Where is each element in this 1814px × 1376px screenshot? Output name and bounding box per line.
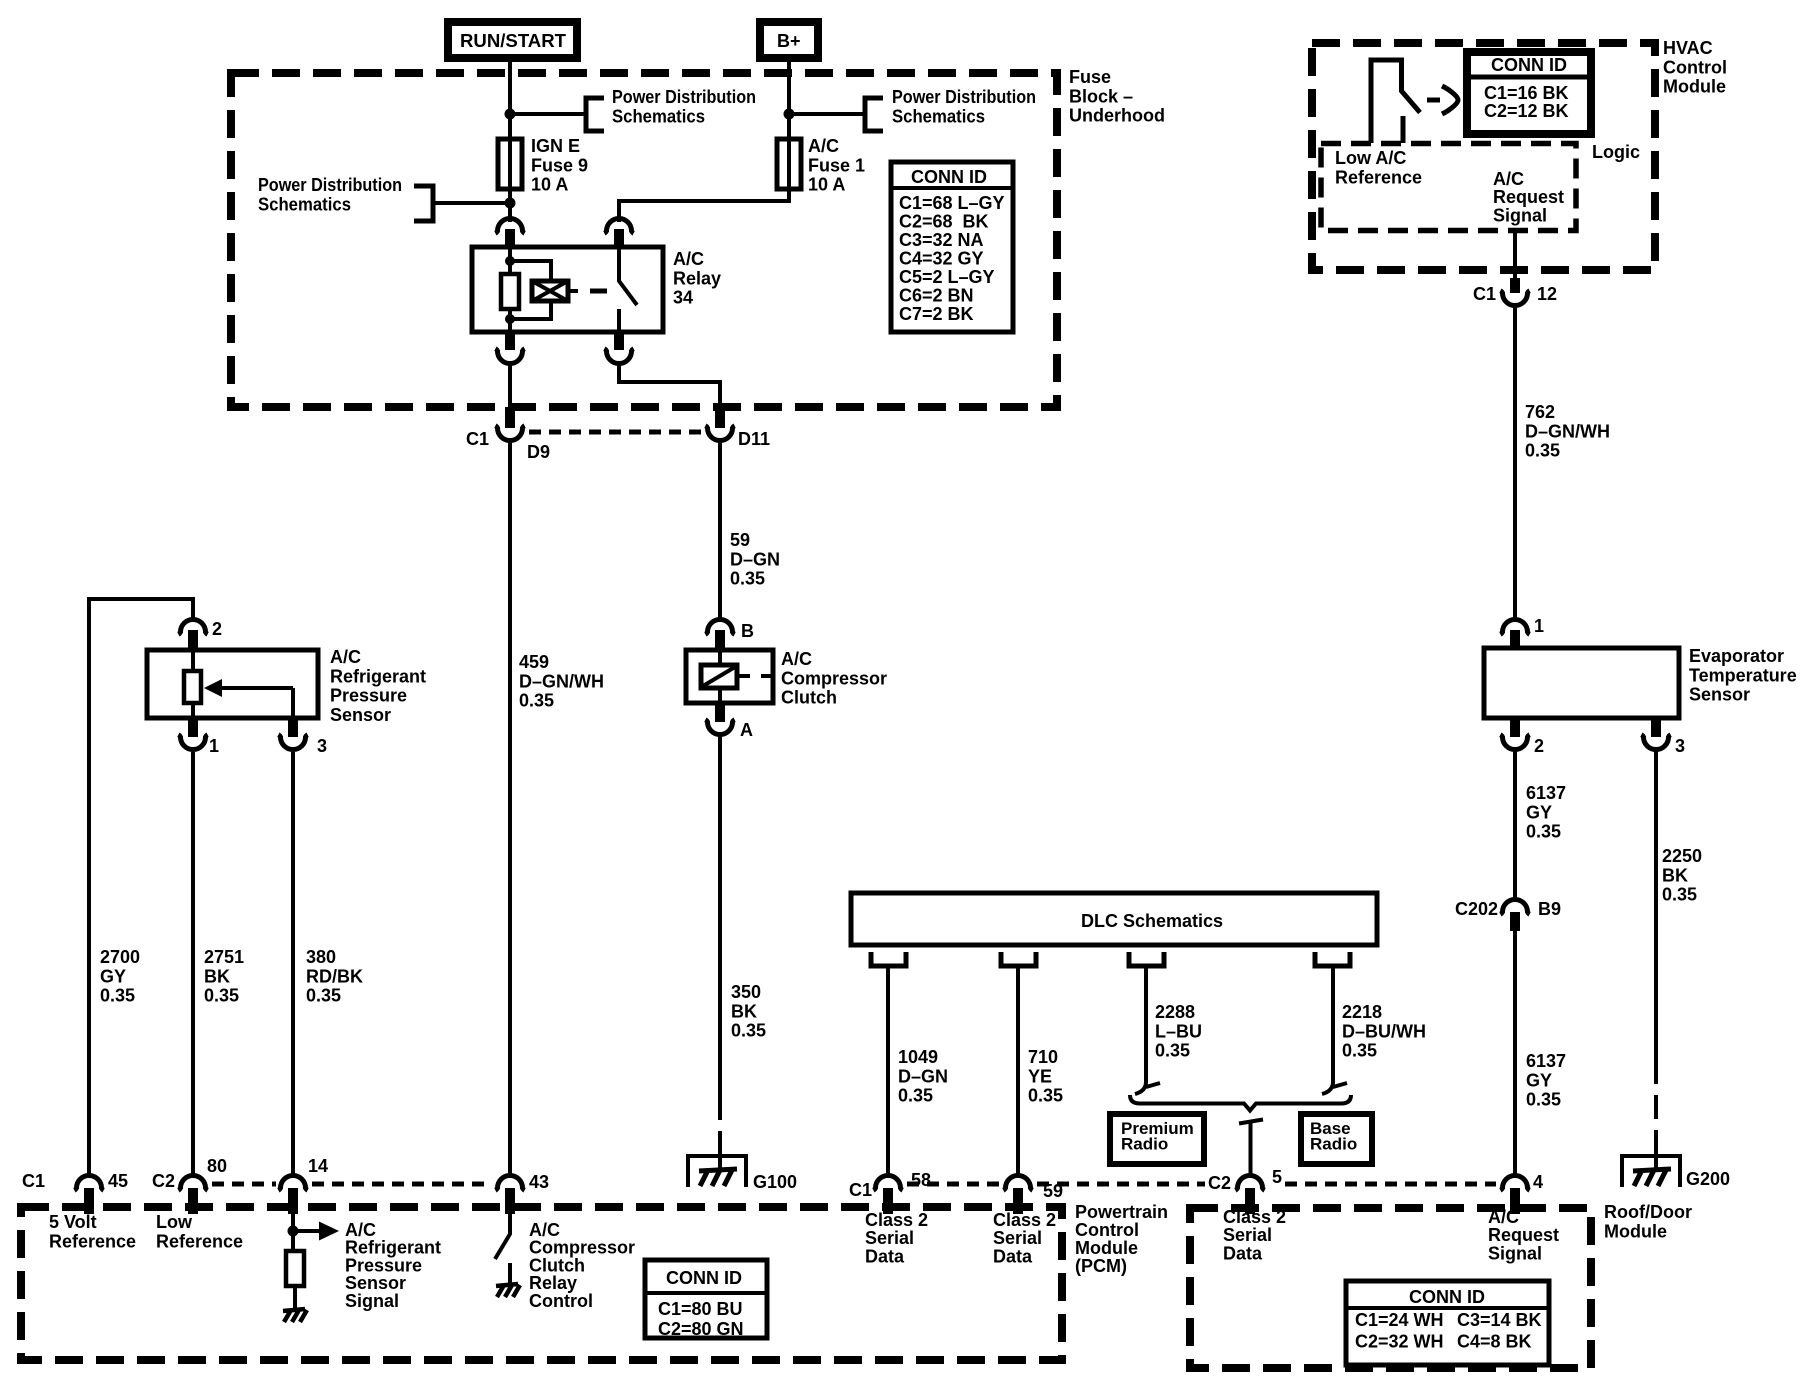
wire: branch to Power Distribution bracket (left): [433, 201, 510, 205]
dashed box: HVAC control module (lower): [1190, 1208, 1591, 1368]
svg-text:Data: Data: [865, 1246, 905, 1266]
value label: 2751 BK 0.35: [204, 947, 244, 1006]
compressor clutch coil element: [701, 650, 773, 703]
svg-text:C1=68 L–GY: C1=68 L–GY: [899, 193, 1005, 213]
junction: B+ branch node: [784, 109, 795, 120]
dashed link: 59 to C2 5: [1037, 1182, 1205, 1187]
wire 2288 L-BU with hook splice: [1135, 966, 1160, 1094]
svg-text:0.35: 0.35: [1526, 822, 1561, 842]
svg-text:6137: 6137: [1526, 1051, 1566, 1071]
label: Roof/Door Module: [1604, 1202, 1692, 1241]
svg-text:C202: C202: [1455, 899, 1498, 919]
connector: relay switch pin bottom: [604, 332, 633, 364]
svg-text:L–BU: L–BU: [1155, 1021, 1202, 1041]
svg-text:CONN ID: CONN ID: [666, 1268, 742, 1288]
svg-text:Control: Control: [1075, 1220, 1139, 1240]
connector: pressure sensor pin 1: [178, 718, 219, 756]
svg-text:HVAC: HVAC: [1663, 38, 1713, 58]
wire 380 RD/BK: pin 3 to PCM 14: [291, 752, 295, 1176]
off-page bracket: Power Distribution Schematics (top): [586, 98, 604, 131]
junction: relay coil bottom: [505, 314, 515, 324]
CONN ID table (HVAC lower): [1346, 1281, 1549, 1365]
wire 2250 BK: pin 3 solid part: [1654, 751, 1658, 1060]
svg-text:C2: C2: [1208, 1173, 1231, 1193]
value label: 2700 GY 0.35: [100, 947, 140, 1006]
label: Power Distribution Schematics (B+ side): [892, 87, 1036, 126]
connector D11: [705, 407, 770, 449]
net label: Class 2 Serial Data (PCM C1 58): [865, 1210, 928, 1266]
value label: 2218 D-BU/WH 0.35: [1342, 1002, 1426, 1061]
dashed link: 14 to 43: [312, 1182, 490, 1187]
svg-text:C2=68 BK: C2=68 BK: [899, 212, 989, 232]
svg-text:2: 2: [212, 619, 222, 639]
svg-text:Radio: Radio: [1310, 1134, 1357, 1153]
svg-text:6137: 6137: [1526, 783, 1566, 803]
wire 6137 GY lower: C202 to HVAC pin 4: [1513, 931, 1517, 1176]
svg-text:2288: 2288: [1155, 1002, 1195, 1022]
CONN ID table (HVAC): [1467, 52, 1591, 134]
svg-text:D9: D9: [527, 442, 550, 462]
relay internal wire: coil branch: [510, 247, 551, 332]
svg-text:2700: 2700: [100, 947, 140, 967]
svg-text:Reference: Reference: [156, 1231, 243, 1251]
value label: 762 D-GN/WH 0.35: [1525, 402, 1610, 461]
svg-text:A/C: A/C: [808, 136, 839, 156]
value label: 380 RD/BK 0.35: [306, 947, 363, 1006]
ground G200: [1622, 1156, 1730, 1189]
svg-text:Signal: Signal: [345, 1291, 399, 1311]
label: Fuse Block - Underhood: [1069, 67, 1165, 126]
value label: 459 D-GN/WH 0.35: [519, 652, 604, 711]
svg-text:BK: BK: [1662, 865, 1688, 885]
svg-text:Control: Control: [1663, 57, 1727, 77]
box: Base Radio: [1301, 1114, 1372, 1164]
svg-text:0.35: 0.35: [306, 986, 341, 1006]
svg-text:43: 43: [529, 1172, 549, 1192]
ground G100: [688, 1156, 797, 1192]
svg-text:2218: 2218: [1342, 1002, 1382, 1022]
relay switch contact: [619, 247, 637, 332]
dashed link: 5 to 4: [1285, 1182, 1496, 1187]
svg-text:Schematics: Schematics: [612, 106, 705, 126]
off-page bracket: Power Distribution Schematics (B+ side): [865, 98, 883, 131]
svg-text:A/C: A/C: [1488, 1207, 1519, 1227]
svg-text:Control: Control: [529, 1291, 593, 1311]
relay linkage dash: [590, 289, 607, 294]
svg-text:Evaporator: Evaporator: [1689, 646, 1784, 666]
svg-text:Module: Module: [1075, 1238, 1138, 1258]
splice brace joining 2288/2218 to radio data line: [1130, 1095, 1351, 1111]
svg-text:Clutch: Clutch: [781, 688, 837, 708]
connector: evaporator sensor pin 1: [1500, 616, 1544, 650]
dashed box: HVAC Control Module: [1312, 43, 1655, 270]
svg-text:C6=2 BN: C6=2 BN: [899, 286, 974, 306]
dashed link: 80 to 14: [212, 1182, 276, 1187]
svg-text:Roof/Door: Roof/Door: [1604, 1202, 1692, 1222]
component: Evaporator Temperature Sensor box: [1484, 648, 1679, 718]
net label: 5 Volt Reference: [49, 1212, 136, 1251]
net label: A/C Request Signal (HVAC top): [1493, 169, 1564, 225]
svg-text:Data: Data: [1223, 1243, 1263, 1263]
svg-text:BK: BK: [731, 1001, 757, 1021]
DLC terminal bracket 1: [871, 952, 906, 966]
label: Powertrain Control Module (PCM): [1075, 1202, 1168, 1276]
svg-text:710: 710: [1028, 1047, 1058, 1067]
label: HVAC Control Module: [1663, 38, 1727, 97]
svg-text:Reference: Reference: [49, 1231, 136, 1251]
HVAC A/C request switch: [1371, 60, 1420, 143]
DLC terminal bracket 3: [1129, 952, 1164, 966]
svg-text:Class 2: Class 2: [993, 1210, 1056, 1230]
wire: brace to HVAC C2 5: [1239, 1120, 1263, 1177]
svg-text:Schematics: Schematics: [892, 106, 985, 126]
svg-text:2: 2: [1534, 736, 1544, 756]
svg-text:GY: GY: [1526, 802, 1552, 822]
value label: IGN E Fuse 9 10 A: [531, 136, 588, 195]
svg-text:Fuse 1: Fuse 1: [808, 155, 865, 175]
svg-text:RUN/START: RUN/START: [460, 31, 566, 51]
svg-text:Refrigerant: Refrigerant: [330, 666, 426, 686]
svg-text:C1=80 BU: C1=80 BU: [658, 1299, 743, 1319]
svg-text:59: 59: [730, 530, 750, 550]
connector: relay coil pin top: [495, 219, 524, 249]
connector 43 (PCM): [495, 1172, 549, 1214]
svg-text:Schematics: Schematics: [258, 194, 351, 214]
PCM output: A/C compressor clutch relay control switch: [495, 1209, 520, 1297]
net label: A/C Refrigerant Pressure Sensor Signal: [345, 1220, 441, 1311]
off-page bracket: Power Distribution Schematics (left): [414, 186, 433, 221]
connector 4 (HVAC): [1500, 1172, 1543, 1214]
svg-text:Reference: Reference: [1335, 167, 1422, 187]
junction: RUN/START branch node: [505, 109, 516, 120]
connector C2 80 (PCM): [152, 1156, 227, 1214]
svg-text:45: 45: [108, 1171, 128, 1191]
svg-text:0.35: 0.35: [1342, 1041, 1377, 1061]
svg-text:D–BU/WH: D–BU/WH: [1342, 1021, 1426, 1041]
dashed link: 58 to 59: [907, 1182, 999, 1187]
svg-text:Logic: Logic: [1592, 142, 1640, 162]
CONN ID table (PCM): [645, 1260, 767, 1339]
fuse IGN E Fuse 9 10 A: [498, 139, 522, 189]
value label: 1049 D-GN 0.35: [898, 1047, 948, 1106]
svg-text:A/C: A/C: [781, 649, 812, 669]
svg-text:CONN ID: CONN ID: [1491, 55, 1567, 75]
svg-text:CONN ID: CONN ID: [1409, 1287, 1485, 1307]
power feed box B+: [760, 22, 818, 58]
value label: 6137 GY 0.35 (lower): [1526, 1051, 1566, 1110]
label: A/C Refrigerant Pressure Sensor: [330, 647, 426, 725]
relay coil (crossed-box) element: [532, 281, 578, 301]
svg-text:3: 3: [1675, 736, 1685, 756]
label: Power Distribution Schematics (left): [258, 175, 402, 214]
svg-text:D–GN: D–GN: [730, 549, 780, 569]
svg-text:C3=32 NA: C3=32 NA: [899, 230, 984, 250]
svg-text:Power Distribution: Power Distribution: [612, 87, 756, 107]
svg-text:Relay: Relay: [673, 268, 721, 288]
label: Logic: [1592, 142, 1640, 162]
svg-text:Powertrain: Powertrain: [1075, 1202, 1168, 1222]
svg-text:380: 380: [306, 947, 336, 967]
sensor wiper arrow: [204, 679, 293, 718]
svg-text:Pressure: Pressure: [330, 686, 407, 706]
svg-text:CONN ID: CONN ID: [911, 167, 987, 187]
connector: compressor clutch pin B: [705, 620, 754, 652]
svg-text:2751: 2751: [204, 947, 244, 967]
svg-text:Request: Request: [1493, 187, 1564, 207]
svg-text:GY: GY: [1526, 1070, 1552, 1090]
CONN ID table (Fuse Block): [891, 162, 1013, 332]
connector: pressure sensor pin 3: [278, 718, 327, 756]
svg-text:14: 14: [308, 1156, 328, 1176]
svg-text:Fuse 9: Fuse 9: [531, 155, 588, 175]
wire 710 YE: DLC to PCM 59: [1016, 966, 1020, 1176]
net label: Low Reference: [156, 1212, 243, 1251]
svg-text:0.35: 0.35: [1028, 1086, 1063, 1106]
svg-text:D11: D11: [738, 429, 770, 449]
svg-text:12: 12: [1537, 284, 1557, 304]
junction: IGN E / Power Distribution left branch: [505, 198, 516, 209]
wire: RUN/START down to IGN E fuse: [508, 55, 512, 139]
component: A/C Refrigerant Pressure Sensor box: [147, 650, 318, 718]
svg-text:0.35: 0.35: [1662, 885, 1697, 905]
svg-text:Radio: Radio: [1121, 1134, 1168, 1153]
net label: A/C Compressor Clutch Relay Control: [529, 1220, 635, 1311]
connector: compressor clutch pin A: [705, 703, 753, 740]
svg-text:0.35: 0.35: [204, 986, 239, 1006]
wire 2751 BK: pin 1 to PCM C2 80: [191, 752, 195, 1176]
svg-text:C4=8 BK: C4=8 BK: [1457, 1332, 1532, 1352]
svg-text:0.35: 0.35: [898, 1086, 933, 1106]
svg-text:459: 459: [519, 652, 549, 672]
svg-text:G200: G200: [1686, 1169, 1730, 1189]
wire: 2700 GY loop up and over to sensor pin 2: [89, 599, 193, 1176]
svg-text:IGN E: IGN E: [531, 136, 580, 156]
connector: relay coil pin bottom: [495, 332, 524, 364]
relay U34 A/C Relay box: [472, 247, 663, 332]
svg-text:GY: GY: [100, 966, 126, 986]
svg-text:0.35: 0.35: [1526, 1090, 1561, 1110]
wire: branch to Power Distribution bracket (B+ side): [789, 112, 865, 116]
svg-text:10 A: 10 A: [531, 175, 568, 195]
box: DLC Schematics: [851, 893, 1377, 945]
svg-text:C5=2 L–GY: C5=2 L–GY: [899, 267, 995, 287]
value label: 59 D-GN 0.35: [730, 530, 780, 589]
svg-text:Fuse: Fuse: [1069, 67, 1111, 87]
svg-text:4: 4: [1533, 1172, 1543, 1192]
svg-text:DLC Schematics: DLC Schematics: [1081, 911, 1223, 931]
wire 6137 GY upper: pin 2 to C202: [1513, 751, 1517, 899]
value label: A/C Fuse 1 10 A: [808, 136, 865, 195]
svg-text:YE: YE: [1028, 1066, 1052, 1086]
svg-text:762: 762: [1525, 402, 1555, 422]
svg-text:Sensor: Sensor: [1689, 685, 1750, 705]
label: Power Distribution Schematics (top): [612, 87, 756, 126]
svg-text:1049: 1049: [898, 1047, 938, 1067]
svg-text:350: 350: [731, 982, 761, 1002]
svg-text:A/C: A/C: [673, 249, 704, 269]
dashed box: HVAC Logic: [1321, 144, 1576, 231]
value label: 350 BK 0.35: [731, 982, 766, 1041]
svg-text:D–GN/WH: D–GN/WH: [1525, 421, 1610, 441]
wire: relay switch pin jog to D11: [619, 365, 720, 409]
component: A/C Compressor Clutch box: [686, 650, 773, 703]
value label: 6137 GY 0.35 (upper): [1526, 783, 1566, 842]
svg-text:0.35: 0.35: [730, 569, 765, 589]
wire 2218 D-BU/WH with hook splice: [1322, 966, 1347, 1094]
power feed box RUN/START: [448, 22, 577, 58]
svg-text:C3=14 BK: C3=14 BK: [1457, 1310, 1542, 1330]
svg-text:Sensor: Sensor: [330, 705, 391, 725]
svg-text:Module: Module: [1663, 77, 1726, 97]
sensor potentiometer element: [184, 650, 201, 718]
relay resistor element: [501, 274, 519, 309]
value label: 2288 L-BU 0.35: [1155, 1002, 1202, 1061]
svg-text:10 A: 10 A: [808, 175, 845, 195]
svg-text:A: A: [740, 720, 753, 740]
svg-text:(PCM): (PCM): [1075, 1256, 1127, 1276]
connector C1 12 (HVAC): [1473, 278, 1557, 305]
connector: pressure sensor pin 2: [178, 619, 222, 651]
svg-text:D–GN: D–GN: [898, 1066, 948, 1086]
svg-text:1: 1: [1534, 616, 1544, 636]
svg-text:Power Distribution: Power Distribution: [892, 87, 1036, 107]
value label: 710 YE 0.35: [1028, 1047, 1063, 1106]
svg-text:C2=12 BK: C2=12 BK: [1484, 101, 1569, 121]
label: A/C Compressor Clutch: [781, 649, 887, 708]
dashed box: Powertrain Control Module (PCM): [21, 1207, 1062, 1360]
DLC terminal bracket 4: [1315, 952, 1350, 966]
label: Evaporator Temperature Sensor: [1689, 646, 1797, 705]
svg-text:A/C: A/C: [330, 647, 361, 667]
svg-text:Temperature: Temperature: [1689, 665, 1797, 685]
svg-text:2250: 2250: [1662, 846, 1702, 866]
svg-text:A/C: A/C: [1493, 169, 1524, 189]
svg-text:Compressor: Compressor: [781, 668, 887, 688]
connector: evaporator sensor pin 2: [1500, 718, 1544, 756]
connector C1 45 (PCM): [22, 1171, 128, 1214]
wire 2250 BK dashed part to G200: [1654, 1060, 1658, 1157]
junction: relay coil top: [505, 256, 515, 266]
box: Premium Radio: [1110, 1114, 1204, 1164]
svg-text:C1: C1: [1473, 284, 1496, 304]
wire: relay coil pin down to C1 D9: [508, 365, 512, 409]
svg-text:Module: Module: [1604, 1221, 1667, 1241]
svg-text:58: 58: [911, 1170, 931, 1190]
svg-text:Power Distribution: Power Distribution: [258, 175, 402, 195]
svg-text:C1: C1: [849, 1180, 872, 1200]
svg-text:Underhood: Underhood: [1069, 106, 1165, 126]
wire: branch to Power Distribution bracket (top): [510, 112, 586, 116]
svg-text:0.35: 0.35: [1155, 1041, 1190, 1061]
svg-text:Low A/C: Low A/C: [1335, 148, 1406, 168]
svg-text:0.35: 0.35: [1525, 441, 1560, 461]
wire 1049 D-GN: DLC to PCM C1 58: [886, 966, 890, 1176]
wire 350 BK dashed part to G100: [718, 1096, 722, 1156]
svg-text:B: B: [741, 621, 754, 641]
PCM input: A/C refrigerant pressure sensor signal: [283, 1207, 339, 1322]
svg-text:0.35: 0.35: [731, 1021, 766, 1041]
svg-text:Serial: Serial: [993, 1228, 1042, 1248]
wire 59 D-GN: D11 to compressor clutch B: [718, 442, 722, 620]
svg-text:C1=24 WH: C1=24 WH: [1355, 1310, 1444, 1330]
connector: relay switch pin top: [604, 219, 633, 249]
svg-text:Signal: Signal: [1493, 205, 1547, 225]
svg-text:Class 2: Class 2: [1223, 1207, 1286, 1227]
dashed box: Fuse Block - Underhood: [231, 73, 1057, 407]
connector C2 5 (HVAC): [1208, 1167, 1282, 1214]
connector: evaporator sensor pin 3: [1641, 718, 1685, 756]
label: A/C Relay 34: [673, 249, 721, 308]
net label: A/C Request Signal (HVAC pin 4): [1488, 1207, 1559, 1263]
connector C1 D9: [466, 407, 550, 462]
svg-text:5 Volt: 5 Volt: [49, 1212, 97, 1232]
svg-text:34: 34: [673, 288, 693, 308]
svg-text:Request: Request: [1488, 1225, 1559, 1245]
svg-text:0.35: 0.35: [100, 986, 135, 1006]
svg-text:C2=80 GN: C2=80 GN: [658, 1319, 744, 1339]
wire 762 D-GN/WH: HVAC to evaporator sensor pin 1: [1513, 307, 1517, 621]
wire: IGN E fuse to relay coil pin: [508, 189, 512, 222]
svg-text:Serial: Serial: [1223, 1225, 1272, 1245]
switch linkage dash and arrow: [1427, 86, 1458, 114]
svg-text:Signal: Signal: [1488, 1243, 1542, 1263]
wire 459 D-GN/WH: D9 to PCM pin 43: [508, 442, 512, 1176]
value label: 2250 BK 0.35: [1662, 846, 1702, 905]
wire: logic output to connector C1 12: [1513, 231, 1517, 281]
svg-text:C4=32 GY: C4=32 GY: [899, 249, 984, 269]
svg-text:0.35: 0.35: [519, 691, 554, 711]
svg-text:C7=2 BK: C7=2 BK: [899, 304, 974, 324]
wire 350 BK: clutch A to G100 (solid part): [718, 736, 722, 1096]
svg-text:C1=16 BK: C1=16 BK: [1484, 83, 1569, 103]
svg-text:RD/BK: RD/BK: [306, 966, 363, 986]
svg-text:Data: Data: [993, 1246, 1033, 1266]
svg-text:1: 1: [209, 736, 219, 756]
connector 59 (PCM): [1003, 1176, 1063, 1215]
svg-text:Serial: Serial: [865, 1228, 914, 1248]
svg-text:5: 5: [1272, 1167, 1282, 1187]
svg-text:Class 2: Class 2: [865, 1210, 928, 1230]
svg-text:80: 80: [207, 1156, 227, 1176]
svg-text:B9: B9: [1538, 899, 1561, 919]
svg-text:B+: B+: [777, 31, 801, 51]
svg-text:Low: Low: [156, 1212, 193, 1232]
svg-text:G100: G100: [753, 1172, 797, 1192]
svg-text:C2: C2: [152, 1171, 175, 1191]
connector C1 58 (PCM): [849, 1170, 931, 1214]
svg-text:C1: C1: [22, 1171, 45, 1191]
svg-text:BK: BK: [204, 966, 230, 986]
wire: B+ down to A/C fuse: [787, 55, 791, 139]
wire: A/C fuse jog to relay switch pin: [619, 189, 789, 222]
svg-text:C2=32 WH: C2=32 WH: [1355, 1332, 1444, 1352]
connector C202 B9: [1455, 899, 1561, 931]
net label: Class 2 Serial Data (HVAC C2 5): [1223, 1207, 1286, 1263]
net label: Class 2 Serial Data (PCM 59): [993, 1210, 1056, 1266]
fuse A/C Fuse 1 10 A: [777, 139, 801, 189]
dashed link: D9 to D11: [529, 430, 701, 435]
svg-text:3: 3: [317, 736, 327, 756]
DLC terminal bracket 2: [1001, 952, 1036, 966]
net label: Low A/C Reference: [1335, 148, 1422, 187]
svg-text:Block –: Block –: [1069, 86, 1133, 106]
svg-text:C1: C1: [466, 429, 489, 449]
svg-text:D–GN/WH: D–GN/WH: [519, 671, 604, 691]
connector 14 (PCM): [278, 1156, 328, 1214]
